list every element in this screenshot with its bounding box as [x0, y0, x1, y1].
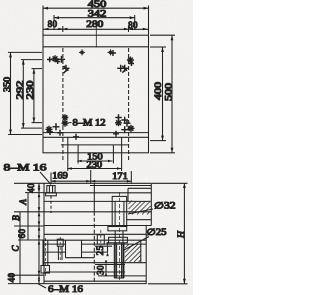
- svg-text:230: 230: [25, 80, 35, 100]
- plate inner line upper: [43, 46, 149, 48]
- bushing counterbore vertical: [127, 188, 129, 201]
- slot outer right edge: [121, 137, 123, 153]
- plate inner line lower2: [43, 136, 149, 138]
- hole cluster bottom-left: [46, 114, 80, 140]
- section plate line y272: [44, 271, 125, 273]
- svg-text:342: 342: [88, 9, 107, 19]
- svg-text:∅32: ∅32: [154, 201, 176, 211]
- guide pillar axis: [119, 192, 121, 280]
- section thin line y185.5 right half: [90, 185, 151, 187]
- svg-text:B: B: [11, 215, 21, 221]
- svg-text:280: 280: [86, 19, 104, 29]
- extension line 500 bottom: [150, 152, 175, 154]
- section partial line y244: [44, 243, 66, 245]
- hole cluster top-left: [47, 55, 70, 73]
- dim 30 line: [105, 261, 107, 276]
- scan grain: [0, 0, 193, 295]
- label 8-M12 leader: [67, 122, 72, 125]
- extension slot left outer down: [67, 153, 69, 171]
- dim 450 line: [43, 7, 149, 10]
- extension slot right outer down: [121, 153, 123, 171]
- plate inner line lower: [43, 132, 149, 134]
- centerline plate vertical: [95, 25, 97, 48]
- svg-text:80: 80: [48, 19, 58, 29]
- svg-text:H: H: [177, 230, 187, 239]
- guide pillar flange upper: [108, 227, 127, 231]
- section plate line y240: [44, 239, 146, 241]
- svg-text:80: 80: [128, 20, 138, 30]
- extension line 292 top: [21, 59, 42, 61]
- dim 450 right extension line: [148, 6, 150, 36]
- dim chain left of section: [38, 183, 41, 284]
- section partial line y264: [95, 264, 125, 266]
- svg-text:292: 292: [15, 81, 25, 100]
- slot outer left edge: [67, 137, 69, 153]
- hole cross marks top row: [79, 49, 114, 55]
- hole cluster top-right: [110, 50, 134, 73]
- svg-text:40: 40: [7, 273, 17, 283]
- hatching lower right of pillar: [125, 244, 141, 262]
- svg-text:8–M 12: 8–M 12: [73, 118, 106, 128]
- M16 bolt top left head: [46, 186, 57, 213]
- centerline left column dashed: [62, 48, 64, 160]
- extension slot right inner down: [112, 153, 114, 164]
- svg-text:169: 169: [52, 170, 68, 180]
- dim chain left inner line: [27, 193, 29, 240]
- bottom screw head mid: [97, 230, 104, 246]
- dim 292 line: [22, 60, 25, 129]
- svg-text:230: 230: [87, 160, 103, 170]
- guide bushing: [112, 196, 127, 226]
- svg-text:A: A: [18, 199, 28, 206]
- extension line 292 bottom: [21, 127, 42, 129]
- svg-text:350: 350: [2, 76, 12, 92]
- extension lines left of section: [8, 183, 44, 283]
- center vertical line x94.3: [93, 183, 95, 284]
- extension line 350 top: [8, 51, 42, 53]
- dim 350 line: [9, 52, 12, 134]
- guide pillar flange lower: [109, 237, 128, 243]
- bushing counterbore line: [128, 187, 151, 189]
- section outline upper: [44, 183, 151, 225]
- slot inner left edge: [77, 145, 79, 153]
- label dia32 leader: [128, 209, 153, 214]
- dim 400 line: [161, 47, 164, 141]
- dim 230 left line: [33, 69, 36, 123]
- section plate line y234: [44, 233, 146, 235]
- svg-text:30: 30: [96, 265, 106, 275]
- dim chain left outer line: [19, 212, 21, 284]
- extension line 350 bottom: [8, 134, 42, 136]
- dim 342 left extension line: [53, 15, 55, 30]
- dim 342 line: [54, 16, 135, 19]
- dim 150 line: [77, 160, 112, 163]
- svg-text:C: C: [11, 245, 21, 252]
- extension H bottom: [148, 283, 188, 285]
- section partial line y246: [95, 245, 112, 247]
- pillar seat bore wall: [140, 240, 142, 263]
- dim H line: [183, 183, 186, 284]
- section plate line y225: [44, 225, 151, 227]
- extension line 230 top: [32, 68, 43, 70]
- dim 169-171 line: [51, 170, 131, 183]
- paper background: [0, 0, 193, 295]
- section plate line y212: [44, 211, 151, 213]
- line y219.7 bushing to edge: [127, 219, 152, 221]
- extension line 500 top: [150, 34, 175, 36]
- lower bolt x57-63: [57, 237, 63, 263]
- extension line 230 bottom: [32, 122, 43, 124]
- label 6-M16 leader: [38, 284, 46, 288]
- extension line 400 top: [150, 46, 166, 48]
- dim 25 line: [106, 242, 108, 256]
- svg-text:25: 25: [95, 246, 105, 256]
- plate outline top view: [43, 35, 149, 153]
- svg-text:500: 500: [164, 82, 174, 101]
- section plate line y262: [44, 262, 146, 264]
- slot inner right edge: [112, 145, 114, 153]
- dim 500 line: [171, 35, 174, 153]
- svg-text:400: 400: [153, 81, 163, 100]
- slot step line: [61, 144, 129, 146]
- svg-text:∅25: ∅25: [147, 227, 168, 237]
- section partial line y257.7 die box: [66, 257, 95, 259]
- label dia25 leader: [124, 237, 149, 251]
- dim 450 left extension line: [42, 6, 44, 36]
- die box: [66, 240, 82, 258]
- svg-text:60: 60: [17, 229, 27, 239]
- section outline lower: [44, 226, 146, 284]
- section step line right: [98, 275, 146, 277]
- section partial line y252: [44, 251, 66, 253]
- hole cluster bottom-right: [113, 114, 135, 137]
- svg-text:6–M 16: 6–M 16: [48, 285, 83, 295]
- guide pillar shaft: [114, 231, 124, 278]
- section plate line y193: [44, 192, 151, 194]
- extension line 400 bottom: [150, 140, 166, 142]
- dim 80-280-80 line: [43, 26, 149, 32]
- extension H top: [152, 182, 188, 184]
- label 8-M16 leader: [40, 172, 51, 185]
- svg-text:171: 171: [112, 171, 128, 181]
- centerline right column dashed: [128, 48, 130, 160]
- section plate line y201: [44, 200, 151, 202]
- dim 230 bottom line: [67, 167, 121, 170]
- extension slot left inner down: [77, 153, 79, 164]
- bottom-left bolt: [41, 238, 50, 276]
- section plate line y281: [44, 280, 146, 282]
- svg-text:40: 40: [26, 183, 36, 193]
- hatching upper right: [129, 201, 151, 215]
- dim 342 right extension line: [134, 15, 136, 30]
